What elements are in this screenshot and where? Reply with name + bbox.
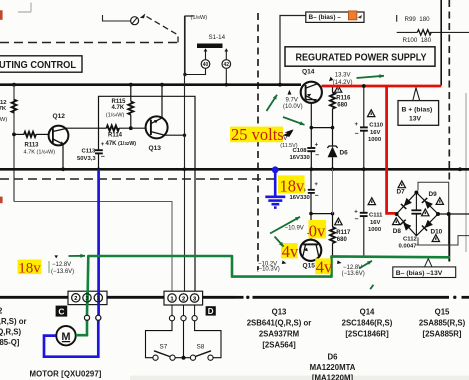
wire switch harness middle <box>182 321 186 360</box>
annotation green arrow at Q14 base <box>267 95 278 111</box>
node on ground bus right <box>458 167 462 171</box>
diode D9 <box>422 191 437 209</box>
svg-text:47K (1/32W): 47K (1/32W) <box>106 141 137 147</box>
svg-text:[2SA885R]: [2SA885R] <box>423 329 462 338</box>
annotation highlight 0v <box>309 220 327 240</box>
svg-text:2SB641(Q,R,S) or: 2SB641(Q,R,S) or <box>247 318 312 327</box>
resistor R113 <box>14 132 55 156</box>
warning triangle R116 <box>335 86 342 93</box>
svg-text:2SA885(R,S): 2SA885(R,S) <box>419 318 466 327</box>
capacitor C110 <box>355 84 384 171</box>
svg-text:C: C <box>58 307 64 317</box>
wire bridge diamond <box>397 193 439 236</box>
svg-text:R117: R117 <box>336 230 351 236</box>
wire Q14 emitter net below ground bus <box>309 169 313 215</box>
svg-text:4W): 4W) <box>0 117 7 123</box>
wire green motor trace <box>76 256 450 335</box>
pin circle below C1 <box>96 305 101 321</box>
node on ground bus <box>97 168 101 172</box>
value label -12.8V/(-13.6V) left <box>49 255 74 274</box>
warning triangle C110 <box>368 110 375 117</box>
label parts Q13 <box>247 307 312 349</box>
label callout B- (bias) -13V <box>393 259 456 278</box>
motor M <box>56 326 75 345</box>
svg-text:4.7K (1/64W): 4.7K (1/64W) <box>24 149 56 155</box>
label pointer cursor near 25 volts <box>285 129 294 138</box>
svg-text:1: 1 <box>97 296 100 302</box>
label box REGURATED POWER SUPPLY <box>285 47 435 66</box>
wire feedback loop top <box>99 96 196 291</box>
annotation highlight 18v (left) <box>18 260 42 277</box>
connector C <box>68 291 107 304</box>
svg-text:.7K: .7K <box>0 106 7 112</box>
annotation green arrow at B- callout <box>359 261 372 269</box>
wire blue motor trace <box>44 170 99 357</box>
svg-text:V: V <box>283 136 287 142</box>
zener diode D6 <box>327 128 348 172</box>
annotation highlight 25 volts <box>230 125 284 144</box>
node R113 branch <box>12 133 16 137</box>
wire vertical to connector D pin2 <box>183 16 187 291</box>
wire from bus to B- box <box>278 16 305 87</box>
warning triangle D10 <box>432 235 439 242</box>
wire left branch down <box>13 85 15 202</box>
svg-text:D: D <box>208 307 214 316</box>
svg-text:–: – <box>315 193 319 200</box>
svg-text:S8: S8 <box>197 344 205 351</box>
diode D10 <box>422 220 443 236</box>
svg-text:C112: C112 <box>403 236 417 242</box>
svg-text:MA1220MTA: MA1220MTA <box>310 363 356 372</box>
wire switch harness left <box>146 321 173 358</box>
wire : dashed boundary horizontal top <box>0 42 178 44</box>
svg-text:R99 180: R99 180 <box>405 16 431 23</box>
warning triangle C111 <box>368 198 375 205</box>
svg-text:3: 3 <box>193 296 196 302</box>
connector C pin circles restamp <box>72 294 199 321</box>
wire (1/8W) stub <box>185 16 194 75</box>
transistor Q13 <box>146 116 168 138</box>
svg-text:D6: D6 <box>328 353 339 362</box>
svg-text:2: 2 <box>182 296 185 302</box>
svg-text:42: 42 <box>224 62 230 68</box>
svg-text:680: 680 <box>337 237 348 243</box>
svg-text:−10.9V: −10.9V <box>285 226 304 232</box>
node black on red line <box>362 84 366 88</box>
wire : faint vertical right edge <box>465 93 467 252</box>
annotation highlight 4v (right) <box>315 258 333 277</box>
svg-text:A937(Q,R,S): A937(Q,R,S) <box>0 328 21 337</box>
wire Q12 collector <box>65 127 99 129</box>
svg-text:UTING CONTROL: UTING CONTROL <box>0 60 76 71</box>
svg-text:Q13: Q13 <box>272 307 287 316</box>
capacitor C108 <box>290 143 320 162</box>
transistor Q15 <box>300 214 321 261</box>
svg-text:4v: 4v <box>316 258 333 277</box>
switch S8 <box>190 351 213 361</box>
transistor Q12 <box>49 126 69 146</box>
svg-text:Q14: Q14 <box>360 307 375 316</box>
wire Q12 emitter to ground bus <box>61 145 65 172</box>
svg-text:Q12: Q12 <box>53 113 66 120</box>
svg-text:9.7V: 9.7V <box>286 97 298 103</box>
svg-text:3: 3 <box>85 296 88 302</box>
svg-text:680: 680 <box>337 102 348 108</box>
switch S1-14 bar <box>197 34 226 48</box>
svg-text:D10: D10 <box>431 229 443 236</box>
svg-text:R116: R116 <box>336 95 351 101</box>
svg-text:0.0047: 0.0047 <box>399 243 418 249</box>
svg-text:[2S785-Q]: [2S785-Q] <box>0 338 20 347</box>
switch contact circle <box>131 17 139 25</box>
svg-text:16V: 16V <box>370 130 381 136</box>
svg-text:0v: 0v <box>309 221 326 240</box>
warning triangle D7 <box>398 181 405 188</box>
label D <box>206 306 216 316</box>
svg-text:−12.8V: −12.8V <box>52 262 71 268</box>
svg-text:+: + <box>355 122 359 128</box>
resistor R116 <box>330 87 351 130</box>
label pointer arrow at Q15 base <box>307 230 312 235</box>
svg-text:B– (bias) –13V: B– (bias) –13V <box>396 270 443 277</box>
svg-text:R114: R114 <box>108 133 123 139</box>
label callout B+ (bias) 13V <box>398 88 439 126</box>
svg-text:C110: C110 <box>369 123 383 129</box>
label parts Q14 <box>342 307 393 338</box>
svg-text:(−13.6V): (−13.6V) <box>51 269 74 275</box>
svg-text:40: 40 <box>203 62 209 68</box>
label left page fragments <box>0 307 27 347</box>
svg-text:R115: R115 <box>112 99 127 105</box>
svg-text:+: + <box>314 182 318 188</box>
mechanical linkage dashed diagonal <box>147 17 179 43</box>
annotation green arrow to Q14 emitter node <box>283 117 305 125</box>
wire : dashed boundary vertical left <box>257 13 259 270</box>
svg-text:25 volts: 25 volts <box>231 125 284 144</box>
switch S7 <box>153 351 175 361</box>
wire : dashed boundary horizontal middle <box>0 178 301 180</box>
svg-text:4.7K: 4.7K <box>112 105 125 111</box>
svg-text:112: 112 <box>0 100 7 106</box>
wire Q13 emitter up to bus <box>160 83 164 118</box>
wire to muting switch contact <box>103 15 131 21</box>
svg-text:R100 180: R100 180 <box>403 37 432 44</box>
switch lever arrow <box>140 14 146 19</box>
svg-text:S1-14: S1-14 <box>209 34 226 41</box>
svg-text:+: + <box>101 142 105 148</box>
wire blue ground-trace with ground symbol <box>265 171 285 208</box>
svg-text:S7: S7 <box>160 344 168 351</box>
node 40 circled <box>183 48 210 76</box>
svg-text:REGURATED POWER SUPPLY: REGURATED POWER SUPPLY <box>296 53 427 64</box>
resistor R115 <box>106 83 134 130</box>
svg-text:16V: 16V <box>370 220 381 226</box>
node bridge right <box>436 212 440 216</box>
svg-text:16V330: 16V330 <box>290 195 311 201</box>
svg-text:(1/8W): (1/8W) <box>191 15 208 21</box>
svg-text:Q15: Q15 <box>303 262 316 269</box>
svg-text:18v: 18v <box>18 261 41 277</box>
label C <box>56 306 68 317</box>
warning triangle D8 <box>393 218 400 225</box>
svg-text:[2SA564]: [2SA564] <box>262 341 296 350</box>
warning triangle D9 <box>436 198 443 205</box>
annotation highlight 18v (center) <box>278 175 305 195</box>
svg-text:C111: C111 <box>369 213 383 219</box>
wire right edge vertical <box>440 0 442 86</box>
node on bus <box>12 83 16 87</box>
svg-text:(10.0V): (10.0V) <box>283 104 303 110</box>
svg-text:(−10.3V): (−10.3V) <box>257 266 280 272</box>
svg-text:2SC1846(R,S): 2SC1846(R,S) <box>342 318 393 327</box>
svg-text:D9: D9 <box>429 191 438 198</box>
svg-text:–: – <box>315 152 319 159</box>
svg-text:+: + <box>354 209 358 215</box>
pin circle below C3 <box>84 305 89 321</box>
value label -12.8V/(-13.6V) right <box>337 260 365 276</box>
svg-text:–: – <box>355 216 359 223</box>
svg-text:B + (bias): B + (bias) <box>402 106 433 113</box>
svg-text:D6: D6 <box>340 150 349 157</box>
annotation green arrow to 0v node <box>270 217 300 234</box>
connector D <box>164 291 203 305</box>
wire node to R116 <box>311 127 332 129</box>
wire between switch poles <box>175 357 190 359</box>
node bridge top <box>414 191 418 195</box>
resistor R99/R100 stub <box>397 15 469 44</box>
svg-text:D7: D7 <box>397 188 406 195</box>
svg-text:Q15: Q15 <box>435 307 450 316</box>
svg-text:(11.5V): (11.5V) <box>280 143 297 149</box>
svg-text:C113: C113 <box>82 148 96 154</box>
transistor Q14 <box>301 82 322 103</box>
wire bridge-right drop to B- net <box>448 214 450 262</box>
annotation green arrow to 4v <box>275 237 284 247</box>
svg-text:–: – <box>355 130 359 137</box>
diode D7 <box>397 188 412 209</box>
svg-text:B– (bias) –: B– (bias) – <box>309 14 342 21</box>
value label -10.2V/(-10.3V) <box>257 260 287 272</box>
svg-text:D8: D8 <box>393 228 402 235</box>
resistor R117 <box>330 214 351 256</box>
label box MUTING CONTROL <box>0 56 82 72</box>
wire gray link to connector D pin1 <box>14 202 172 292</box>
annotation green arrow top right <box>357 74 385 78</box>
node bridge left <box>395 212 399 216</box>
node 42 circled <box>222 48 231 86</box>
svg-text:16V330: 16V330 <box>290 155 311 161</box>
svg-text:Q14: Q14 <box>302 69 315 76</box>
svg-text:(−13.6V): (−13.6V) <box>342 271 365 277</box>
capacitor C111 <box>354 169 383 257</box>
annotation green arrow at 18v left <box>69 254 86 258</box>
svg-text:B641(Q,R,S) or: B641(Q,R,S) or <box>0 317 27 326</box>
diode D8 <box>393 220 412 236</box>
pins below connector D <box>172 305 195 315</box>
capacitor C109 <box>290 182 319 201</box>
svg-text:13V: 13V <box>409 115 422 122</box>
resistor R114 <box>99 125 146 147</box>
wire Q14 emitter down <box>309 103 313 171</box>
wire switch harness right <box>195 321 221 358</box>
value label 11V/(11.5V) <box>280 129 297 149</box>
label box B- (bias) top (clipped) <box>306 11 364 22</box>
svg-text:2: 2 <box>74 296 77 302</box>
wire main supply bus <box>0 83 301 86</box>
warning triangle R117 <box>335 218 342 225</box>
wire red B+ trace <box>322 86 442 213</box>
svg-text:Q13: Q13 <box>149 145 162 152</box>
resistor R112 <box>0 100 17 124</box>
wire ground bus (thick, full width) <box>0 168 469 171</box>
wire node-213 horizontal <box>311 169 334 215</box>
annotation green tick bottom <box>370 285 373 289</box>
svg-text:18v: 18v <box>280 176 306 195</box>
detail box around bridge <box>416 182 448 245</box>
svg-text:[MA1220M]: [MA1220M] <box>312 373 354 380</box>
capacitor C112 <box>399 193 422 250</box>
wire bottom chassis line with dash-dot <box>0 296 469 299</box>
svg-text:1: 1 <box>170 296 173 302</box>
svg-text:R113: R113 <box>25 142 40 148</box>
wire Q13 collector to vertical <box>165 134 186 137</box>
wire : dashed boundary vertical right <box>448 0 450 182</box>
value label 13.3V/14.2V <box>329 73 352 86</box>
label parts D6 <box>310 353 356 380</box>
svg-text:[2SC1846R]: [2SC1846R] <box>345 329 389 338</box>
wire bridge right to edge <box>438 212 469 216</box>
value label 9.7V/10.0V <box>283 90 303 110</box>
svg-text:–: – <box>101 154 105 161</box>
capacitor C113 <box>77 128 105 169</box>
svg-text:2SA937RM: 2SA937RM <box>259 329 299 338</box>
annotation highlight 4v (left) <box>281 242 299 261</box>
svg-text:50V3,3: 50V3,3 <box>77 156 96 162</box>
svg-text:13.3V: 13.3V <box>335 73 351 79</box>
wire step stub right edge <box>449 236 469 245</box>
warning triangle C112 <box>422 209 429 216</box>
svg-text:MOTOR [QXU0297]: MOTOR [QXU0297] <box>30 369 102 378</box>
svg-text:1000: 1000 <box>368 227 382 233</box>
svg-text:1000: 1000 <box>368 137 382 143</box>
svg-text:4v: 4v <box>282 242 299 261</box>
svg-text:+: + <box>315 143 319 149</box>
label parts Q15 <box>419 307 466 338</box>
